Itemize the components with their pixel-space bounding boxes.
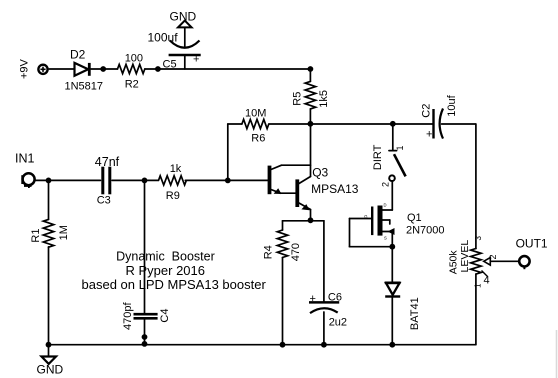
svg-text:IN1: IN1 bbox=[15, 151, 35, 165]
svg-text:470: 470 bbox=[290, 243, 302, 261]
svg-text:R9: R9 bbox=[166, 190, 180, 202]
svg-text:Dynamic Booster: Dynamic Booster bbox=[116, 249, 215, 263]
svg-text:D: D bbox=[384, 203, 387, 208]
svg-text:R6: R6 bbox=[251, 133, 265, 145]
svg-text:2N7000: 2N7000 bbox=[406, 225, 445, 237]
svg-text:R Pyper 2016: R Pyper 2016 bbox=[126, 263, 206, 278]
svg-text:R2: R2 bbox=[125, 79, 139, 91]
svg-text:2u2: 2u2 bbox=[329, 317, 347, 329]
svg-text:Q3: Q3 bbox=[312, 166, 328, 180]
svg-text:R4: R4 bbox=[263, 245, 275, 259]
svg-text:OUT1: OUT1 bbox=[516, 236, 548, 250]
svg-text:based on LPD MPSA13 booster: based on LPD MPSA13 booster bbox=[82, 277, 267, 292]
svg-text:R1: R1 bbox=[30, 229, 42, 243]
svg-text:+: + bbox=[310, 293, 316, 305]
svg-text:470pf: 470pf bbox=[122, 302, 134, 330]
svg-text:+: + bbox=[193, 54, 199, 66]
svg-text:100: 100 bbox=[125, 53, 143, 65]
svg-text:MPSA13: MPSA13 bbox=[311, 182, 359, 196]
svg-text:47nf: 47nf bbox=[95, 155, 120, 169]
svg-text:GND: GND bbox=[37, 363, 64, 377]
svg-text:C4: C4 bbox=[159, 309, 171, 323]
svg-text:D2: D2 bbox=[70, 48, 86, 62]
svg-text:2: 2 bbox=[488, 254, 498, 259]
svg-text:C2: C2 bbox=[421, 104, 433, 118]
svg-text:G: G bbox=[364, 214, 367, 219]
svg-text:+9V: +9V bbox=[19, 58, 31, 79]
svg-text:1N5817: 1N5817 bbox=[65, 81, 104, 93]
svg-text:10uf: 10uf bbox=[446, 94, 458, 116]
svg-text:2: 2 bbox=[381, 182, 391, 187]
svg-text:1k: 1k bbox=[170, 163, 182, 175]
svg-text:R5: R5 bbox=[292, 92, 304, 106]
svg-text:C6: C6 bbox=[328, 292, 342, 304]
svg-text:100uf: 100uf bbox=[148, 31, 179, 45]
svg-text:4: 4 bbox=[484, 275, 490, 287]
svg-text:1: 1 bbox=[474, 283, 483, 288]
svg-text:+: + bbox=[426, 129, 432, 141]
svg-text:C3: C3 bbox=[97, 195, 111, 207]
svg-text:10M: 10M bbox=[245, 108, 266, 120]
svg-text:DIRT: DIRT bbox=[372, 144, 384, 170]
svg-text:A50k: A50k bbox=[448, 250, 460, 275]
svg-text:C5: C5 bbox=[163, 59, 177, 71]
svg-text:1M: 1M bbox=[58, 225, 70, 240]
svg-text:GND: GND bbox=[170, 10, 197, 24]
svg-text:S: S bbox=[384, 235, 387, 240]
svg-text:Q1: Q1 bbox=[407, 212, 422, 224]
svg-text:LEVEL: LEVEL bbox=[459, 240, 471, 273]
svg-text:1k5: 1k5 bbox=[318, 90, 330, 108]
svg-text:1: 1 bbox=[395, 145, 405, 150]
svg-text:BAT41: BAT41 bbox=[409, 297, 421, 330]
svg-text:3: 3 bbox=[474, 236, 483, 241]
